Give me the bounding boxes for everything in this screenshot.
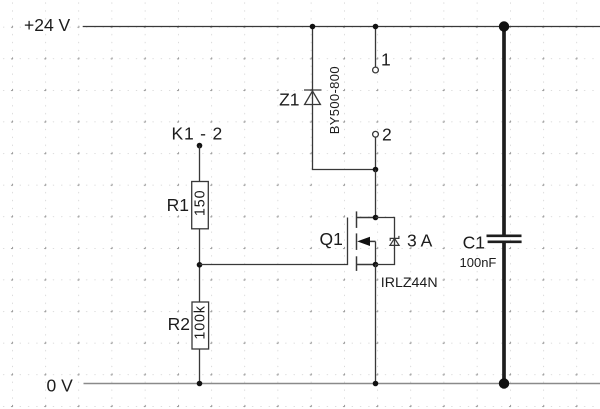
svg-text:1: 1: [381, 50, 391, 70]
wire 0V rail: [84, 383, 600, 385]
terminal pin 1: [373, 67, 379, 73]
channel dashes: [356, 211, 358, 228]
wire terminal branch top: [375, 27, 377, 68]
junction C1 / 0V (big): [499, 378, 509, 388]
junction source: [373, 262, 379, 268]
junction divider node: [197, 262, 203, 268]
diode Z1: [304, 90, 322, 105]
terminal pin 2: [373, 131, 379, 137]
svg-text:R1: R1: [167, 195, 189, 215]
junction Z1 / drain node: [373, 167, 379, 173]
svg-text:3 A: 3 A: [407, 230, 433, 250]
body zener diode symbol: [390, 236, 399, 246]
wire body arrow down to source junction: [375, 242, 377, 265]
wire K1-2 to R1: [199, 146, 201, 182]
body diode branch: [376, 218, 395, 265]
wire C1 branch bottom (thick): [502, 243, 506, 384]
wire gate lead: [200, 218, 348, 265]
svg-text:K1 - 2: K1 - 2: [172, 124, 224, 144]
svg-text:100nF: 100nF: [460, 255, 497, 270]
body arrow head: [357, 237, 370, 246]
resistor R2 body: [192, 302, 209, 349]
junction source / 0V: [373, 381, 379, 387]
wire Z1 branch vertical: [313, 27, 376, 170]
svg-text:100k: 100k: [193, 305, 209, 339]
svg-text:Z1: Z1: [279, 90, 299, 110]
node K1-2 dot: [197, 143, 203, 149]
svg-text:R2: R2: [168, 314, 190, 334]
wire source to 0V: [375, 265, 377, 384]
svg-text:2: 2: [382, 125, 392, 145]
svg-text:150: 150: [192, 190, 208, 217]
svg-text:+24 V: +24 V: [24, 15, 71, 35]
svg-text:Q1: Q1: [320, 229, 343, 249]
wire C1 branch top (thick): [502, 27, 506, 236]
wire R2 to 0V: [199, 349, 201, 384]
svg-text:C1: C1: [463, 233, 485, 253]
wire node to drain: [375, 170, 377, 218]
svg-text:0 V: 0 V: [47, 375, 74, 395]
drain lead: [357, 217, 376, 219]
junction R2 / 0V: [197, 381, 203, 387]
junction top rail / terminal: [373, 24, 379, 30]
wire pin2 down to node: [375, 137, 377, 169]
junction top rail / Z1: [310, 24, 316, 30]
body arrow shaft: [369, 240, 376, 242]
resistor R1 body: [192, 182, 209, 229]
wire R1 to divider node: [199, 229, 201, 302]
source lead: [357, 264, 376, 266]
svg-text:BY500-800: BY500-800: [327, 66, 342, 134]
transistor Q1: [357, 211, 376, 271]
junction drain: [373, 215, 379, 221]
wire +24V rail: [83, 26, 600, 28]
svg-text:IRLZ44N: IRLZ44N: [381, 275, 438, 291]
capacitor C1 plates: [487, 235, 522, 238]
junction C1 / +24V (big): [499, 21, 509, 31]
